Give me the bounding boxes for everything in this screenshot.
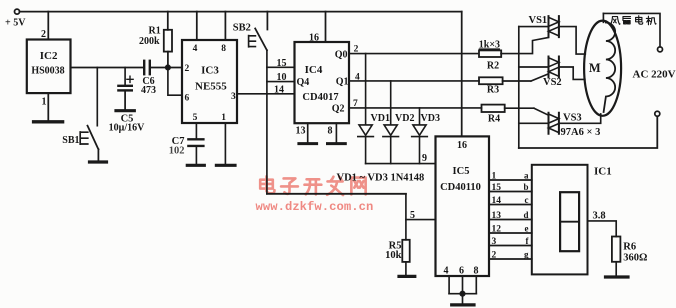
svg-text:CD40110: CD40110 — [440, 182, 481, 193]
svg-text:13: 13 — [296, 126, 306, 137]
svg-text:4: 4 — [444, 266, 449, 277]
svg-text:VS1: VS1 — [529, 15, 548, 26]
svg-text:IC2: IC2 — [40, 50, 58, 62]
svg-text:360Ω: 360Ω — [623, 253, 647, 264]
svg-text:AC 220V: AC 220V — [633, 69, 676, 81]
svg-text:7: 7 — [353, 99, 358, 109]
svg-text:NE555: NE555 — [195, 81, 227, 93]
svg-text:+ 5V: + 5V — [5, 18, 26, 29]
svg-text:1: 1 — [492, 171, 497, 181]
svg-text:8: 8 — [328, 126, 333, 137]
svg-text:200k: 200k — [139, 36, 160, 47]
svg-text:14: 14 — [274, 84, 284, 95]
svg-text:2: 2 — [354, 45, 359, 55]
svg-text:SB1: SB1 — [62, 135, 79, 146]
svg-text:10μ/16V: 10μ/16V — [109, 123, 145, 134]
svg-text:3: 3 — [492, 237, 497, 247]
svg-text:1: 1 — [221, 113, 226, 123]
svg-text:3: 3 — [231, 92, 236, 102]
svg-text:2: 2 — [492, 251, 497, 261]
svg-text:10k: 10k — [385, 250, 402, 261]
svg-text:12: 12 — [492, 225, 502, 235]
svg-text:www.dzkfw.com.cn: www.dzkfw.com.cn — [256, 200, 374, 214]
svg-text:M: M — [589, 61, 601, 75]
svg-text:a: a — [524, 170, 529, 180]
svg-text:97A6 × 3: 97A6 × 3 — [561, 127, 601, 138]
svg-text:IC4: IC4 — [305, 64, 323, 76]
svg-text:15: 15 — [492, 183, 502, 193]
svg-text:Q4: Q4 — [297, 77, 310, 88]
svg-text:IC3: IC3 — [201, 65, 219, 77]
svg-text:g: g — [524, 250, 529, 260]
svg-text:e: e — [525, 224, 529, 234]
svg-text:10: 10 — [277, 72, 287, 83]
svg-text:102: 102 — [169, 146, 185, 157]
svg-text:R2: R2 — [487, 60, 499, 71]
svg-text:1k×3: 1k×3 — [479, 40, 500, 51]
svg-text:9: 9 — [422, 153, 427, 164]
svg-text:VS3: VS3 — [563, 113, 582, 124]
svg-text:SB2: SB2 — [233, 23, 251, 34]
svg-text:5: 5 — [410, 210, 415, 221]
svg-text:R3: R3 — [487, 85, 499, 96]
svg-text:1: 1 — [42, 97, 47, 108]
svg-text:8: 8 — [474, 266, 479, 277]
svg-text:HS0038: HS0038 — [31, 66, 64, 77]
svg-text:VS2: VS2 — [543, 77, 562, 88]
svg-text:VD3: VD3 — [421, 113, 440, 124]
svg-text:2: 2 — [41, 29, 46, 40]
svg-text:6: 6 — [459, 266, 464, 277]
svg-text:4: 4 — [355, 73, 360, 83]
svg-text:8: 8 — [221, 44, 226, 54]
svg-text:Q1: Q1 — [336, 77, 349, 88]
svg-text:d: d — [523, 210, 528, 220]
svg-text:2: 2 — [185, 64, 190, 74]
svg-text:16: 16 — [457, 140, 467, 151]
svg-text:VD1 ~ VD3 1N4148: VD1 ~ VD3 1N4148 — [337, 172, 425, 183]
svg-text:15: 15 — [277, 58, 287, 69]
svg-text:6: 6 — [185, 93, 190, 103]
svg-text:c: c — [525, 195, 529, 205]
svg-text:5: 5 — [193, 113, 198, 123]
svg-text:f: f — [526, 236, 530, 246]
svg-text:R6: R6 — [623, 242, 636, 253]
svg-text:4: 4 — [193, 44, 198, 54]
svg-text:VD1: VD1 — [371, 113, 390, 124]
svg-text:R1: R1 — [149, 26, 161, 37]
svg-text:IC5: IC5 — [453, 166, 470, 177]
svg-text:IC1: IC1 — [594, 166, 612, 178]
svg-text:16: 16 — [309, 33, 319, 44]
svg-text:3.8: 3.8 — [593, 211, 606, 222]
svg-text:14: 14 — [492, 196, 502, 206]
svg-text:13: 13 — [492, 211, 502, 221]
svg-text:VD2: VD2 — [395, 113, 414, 124]
svg-text:b: b — [523, 182, 528, 192]
svg-text:473: 473 — [141, 85, 156, 96]
svg-text:Q0: Q0 — [335, 49, 348, 60]
svg-text:R4: R4 — [488, 114, 500, 125]
svg-text:Q2: Q2 — [332, 103, 345, 114]
svg-text:CD4017: CD4017 — [302, 92, 338, 103]
